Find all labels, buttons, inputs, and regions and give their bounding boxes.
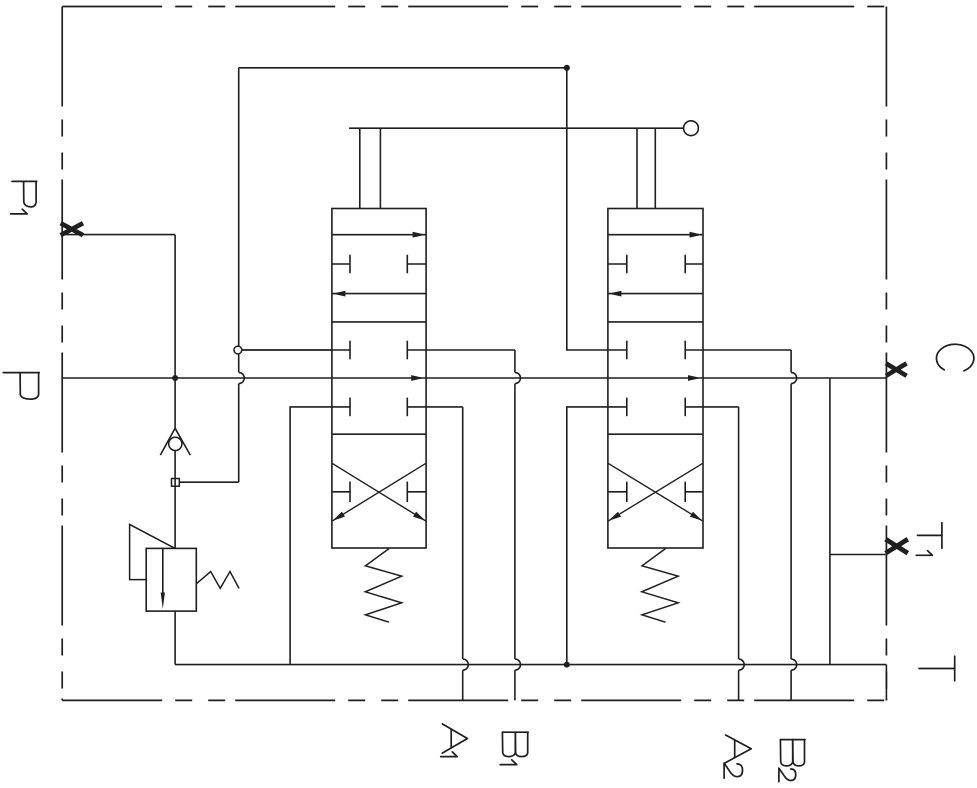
wire B2 hop over T rail xyxy=(791,659,797,670)
valve V2 closed port row top xyxy=(608,255,703,274)
valve V2 working port row B xyxy=(608,341,703,360)
label port B2 xyxy=(779,740,805,782)
valve V1 flow arrow right xyxy=(332,232,426,238)
valve V1 crossed path down-left xyxy=(332,463,426,521)
wire pilot drop to valve V2 port xyxy=(567,68,608,350)
port C X mark xyxy=(886,363,907,375)
valve V1 crossed path down-right xyxy=(332,463,426,521)
wire A1 xyxy=(426,407,463,701)
valve V2 closed port row bottom xyxy=(608,482,703,502)
relief valve RV1 body xyxy=(146,548,196,611)
valve V1 flow arrow left xyxy=(332,291,426,297)
wire T rail drop to border xyxy=(885,665,887,701)
valve V1 working port row B xyxy=(332,341,426,360)
valve V1 closed port row bottom xyxy=(332,482,426,502)
wire A2 hop over T rail xyxy=(739,659,745,670)
directional valve V1 body xyxy=(332,209,426,549)
wire pilot actuator rail xyxy=(349,127,683,129)
pilot rod V1 xyxy=(360,128,381,208)
label port P1 xyxy=(11,181,37,214)
wire pilot left vertical xyxy=(238,68,240,482)
relief valve RV1 flow arrow xyxy=(161,548,165,609)
directional valve V2 body xyxy=(608,209,703,549)
wire pilot upper horizontal xyxy=(239,67,567,69)
junction dot pilot tee xyxy=(564,65,570,71)
enclosure boundary left edge xyxy=(61,7,63,701)
wire B2 xyxy=(703,350,791,700)
wire A1 hop over T rail xyxy=(463,659,469,670)
valve V2 P rail flow arrow xyxy=(688,375,701,381)
wire check valve to node xyxy=(174,451,176,479)
junction dot V2 drain on T rail xyxy=(564,662,570,668)
port T1 X mark xyxy=(886,539,908,553)
valve V2 return spring xyxy=(642,549,678,623)
valve V1 P rail flow arrow xyxy=(411,375,424,381)
enclosure boundary bottom edge xyxy=(62,699,886,701)
valve V2 box divider lower xyxy=(608,433,703,435)
port P1 X mark xyxy=(61,223,83,235)
pilot port circle node xyxy=(234,346,332,354)
wire T rail xyxy=(175,664,886,666)
valve V2 working port row A xyxy=(608,398,703,417)
relief valve RV1 pilot tab xyxy=(130,524,176,579)
wire relief valve to T rail xyxy=(174,611,176,665)
label port P xyxy=(3,373,39,400)
wire P rail xyxy=(62,377,886,379)
wire P1 vertical xyxy=(174,235,176,429)
label port A2 xyxy=(724,735,751,778)
wire B2 hop over P rail xyxy=(791,372,797,383)
label port T xyxy=(919,656,955,681)
valve V1 box divider upper xyxy=(332,321,426,323)
junction dot P1 on P rail xyxy=(172,375,178,381)
valve V1 closed port row top xyxy=(332,255,426,274)
wire V2 port A to T rail xyxy=(567,407,608,665)
valve V2 crossed path down-left xyxy=(608,463,703,521)
valve V2 crossed path down-right xyxy=(608,463,703,521)
pilot rod V2 xyxy=(637,128,655,208)
label port B1 xyxy=(500,732,528,764)
check valve CV1 xyxy=(160,428,190,455)
wire P1 horizontal xyxy=(62,234,175,236)
node square gauge port xyxy=(172,479,180,487)
wire T1 port horizontal xyxy=(830,554,886,556)
wire B1 xyxy=(426,350,515,700)
valve V1 return spring xyxy=(365,549,401,623)
plug circle pilot rail end xyxy=(684,121,699,136)
wire B1 hop over T rail xyxy=(515,659,521,670)
label port A1 xyxy=(441,724,468,757)
valve V1 working port row A xyxy=(332,398,426,417)
wire A2 xyxy=(703,407,739,701)
wire B1 hop over P rail xyxy=(515,372,521,383)
label port T1 xyxy=(916,523,942,556)
wire T1 branch vertical xyxy=(829,378,831,665)
enclosure boundary right edge xyxy=(885,7,887,701)
valve V2 flow arrow left xyxy=(608,291,703,297)
relief valve RV1 spring xyxy=(196,572,239,589)
wire pilot bottom horizontal xyxy=(179,481,238,483)
enclosure boundary top edge xyxy=(62,6,886,8)
wire crossover hop pilot over P rail xyxy=(239,372,245,383)
valve V1 box divider lower xyxy=(332,433,426,435)
wire V1 port A left drain xyxy=(290,407,332,665)
label port C xyxy=(936,344,973,371)
wire node to relief valve xyxy=(174,486,176,548)
valve V2 flow arrow right xyxy=(608,232,703,238)
valve V2 box divider upper xyxy=(608,321,703,323)
